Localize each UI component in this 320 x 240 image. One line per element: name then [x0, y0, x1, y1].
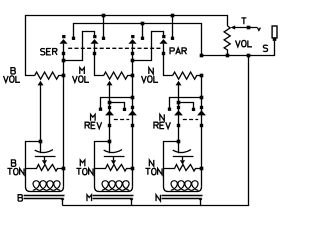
- wire M cap to tone wiper: [113, 157, 115, 161]
- label REV of M REV: [85, 122, 101, 128]
- node B tone top junction: [39, 140, 43, 144]
- wire dashed gang M REV: [114, 119, 129, 121]
- switch PAR pole4 bottom lug: [162, 52, 165, 55]
- resistor master VOL zigzag: [224, 26, 230, 56]
- switch M REV poleL wiper arrow: [105, 110, 114, 115]
- switch SER pole1 wiper arrow: [59, 39, 67, 44]
- wire dashed gang N REV: [183, 119, 198, 121]
- node junction on wiper wire: [247, 26, 251, 30]
- pot wiper B TON down arrow: [42, 160, 47, 164]
- node junction M REV wiper branch: [108, 101, 112, 105]
- resistor M VOL zigzag: [104, 72, 133, 79]
- capacitor M cap stem: [109, 142, 111, 154]
- ground arrow M pickup: [130, 199, 134, 202]
- label N pickup: [156, 195, 160, 201]
- wire ground bus bottom and right riser: [63, 56, 249, 206]
- label N of N VOL: [149, 68, 153, 74]
- switch SER pole1 side contact: [72, 37, 75, 40]
- wire PAR pole3 common down to M VOL right: [132, 44, 134, 76]
- switch N REV middle contact: [192, 108, 195, 111]
- label N of N TON: [149, 160, 153, 166]
- resistor B VOL zigzag: [35, 72, 64, 79]
- label B of B VOL: [11, 68, 15, 74]
- ground arrow N pickup: [199, 199, 203, 202]
- label TON of M TON: [76, 168, 93, 174]
- pickup B base upper line: [24, 195, 65, 197]
- node B VOL right terminal: [62, 74, 66, 78]
- label B pickup: [18, 195, 22, 201]
- pot wiper M VOL arrow: [107, 81, 113, 86]
- switch N REV poleL bottom lug: [177, 124, 180, 127]
- resistor N TON zigzag: [164, 165, 202, 172]
- node junction x132.5 y60.5: [131, 59, 135, 63]
- resistor N VOL zigzag: [173, 72, 202, 79]
- switch PAR pole3 wiper arrow: [128, 39, 136, 44]
- capacitor B cap flat plate: [35, 156, 56, 158]
- capacitor N cap stem: [178, 142, 180, 154]
- wire drop to SER S2 side contact: [103, 16, 105, 38]
- node junction x63.5 y60.5: [62, 59, 66, 63]
- wire hot rail: B VOL left lead, left edge, top rail, drop to master VOL: [26, 16, 228, 76]
- resistor B TON zigzag: [26, 165, 64, 172]
- wire link PAR pole3 common to pole4 top contact: [133, 32, 164, 61]
- node junction N REV y97.5 on right line: [200, 96, 204, 100]
- wire sleeve line y55.5 to jack: [202, 41, 275, 56]
- capacitor N cap curved plate: [173, 150, 191, 153]
- wire drop to PAR S4 side contact: [172, 16, 174, 38]
- switch N REV poleL wiper arrow: [174, 110, 183, 115]
- label VOL of M VOL: [73, 76, 90, 82]
- label N of N REV: [160, 114, 164, 120]
- node M VOL right terminal: [131, 74, 135, 78]
- label TON of B TON: [7, 168, 24, 174]
- switch SER pole2 top contact: [93, 35, 96, 38]
- node junction x227.5 y55.5: [226, 54, 230, 58]
- switch M REV cross wire left contact to poleR line: [101, 98, 133, 108]
- switch PAR pole4 side contact: [171, 37, 174, 40]
- switch M REV poleL top contact: [108, 106, 111, 109]
- wire SER pole2 common down to M VOL left: [95, 44, 104, 76]
- label PAR: [170, 48, 186, 54]
- switch SER pole2 wiper arrow: [90, 39, 98, 44]
- wire dashed gang SER-PAR: [68, 47, 160, 49]
- node junction N REV wiper branch: [177, 101, 181, 105]
- switch PAR pole3 top contact: [131, 35, 134, 38]
- wire PAR pole4 common down to N VOL left: [164, 44, 173, 76]
- node B tone right terminal: [62, 167, 66, 171]
- wire N tone loop left side and bottom: [164, 142, 202, 192]
- switch SER pole2 bottom lug: [93, 52, 96, 55]
- label B of B TON: [11, 160, 15, 166]
- switch N REV cross wire left contact to poleR line: [170, 98, 202, 108]
- switch N REV poleR bottom lug: [200, 124, 203, 127]
- wire rail y23 from SER side contact to N line top: [74, 24, 202, 56]
- switch PAR pole4 wiper arrow: [159, 39, 167, 44]
- switch N REV left side contact: [168, 108, 171, 111]
- switch SER pole1 top contact: [62, 35, 65, 38]
- wire drop to PAR S3 side contact: [142, 24, 144, 38]
- wire SER pole1 common down to B VOL right: [63, 44, 65, 76]
- switch N REV poleR top contact: [200, 106, 203, 109]
- label M pickup: [87, 195, 92, 201]
- capacitor N cap flat plate: [173, 156, 194, 158]
- pot wiper B VOL arrow: [38, 81, 44, 86]
- wire N right line down to box: [201, 76, 203, 187]
- pickup N base lower line: [162, 198, 202, 200]
- wire B ground stub: [62, 201, 64, 206]
- switch PAR pole3 side contact: [141, 37, 144, 40]
- node junction M REV y97.5 on right line: [131, 96, 135, 100]
- switch M REV poleR wiper arrow: [128, 110, 137, 115]
- pot wiper M TON down arrow: [111, 160, 116, 164]
- capacitor B cap curved plate: [35, 150, 53, 153]
- wire N ground stub: [200, 201, 202, 206]
- pickup M base lower line: [93, 198, 133, 200]
- capacitor M cap flat plate: [104, 156, 125, 158]
- wire M tone loop left side and bottom: [95, 142, 133, 192]
- label T tip: [241, 18, 246, 24]
- resistor M TON zigzag: [95, 165, 133, 172]
- label REV of N REV: [154, 122, 170, 128]
- inductor N coil loops: [171, 181, 199, 191]
- label SER: [41, 49, 57, 55]
- switch N REV poleR wiper arrow: [197, 110, 206, 115]
- node junction x248.5 y55.5: [247, 54, 251, 58]
- inductor B coil loops: [33, 181, 61, 191]
- node N tone right terminal: [200, 167, 204, 171]
- switch SER pole1 bottom lug: [62, 52, 65, 55]
- switch SER pole2 side contact: [102, 37, 105, 40]
- node M tone right terminal: [131, 167, 135, 171]
- label S sleeve: [263, 45, 267, 51]
- switch M REV middle contact: [123, 108, 126, 111]
- wire B cap to tone wiper: [44, 157, 46, 161]
- wire M ground stub: [131, 201, 133, 206]
- switch PAR pole4 top contact: [162, 35, 165, 38]
- wire N cap to tone wiper: [182, 157, 184, 161]
- wire M VOL wiper down: [109, 85, 111, 142]
- wire M right line down to box: [132, 76, 134, 187]
- node N tone top junction: [177, 140, 181, 144]
- node N VOL right terminal: [200, 74, 204, 78]
- pickup M base upper line: [93, 195, 134, 197]
- ground arrow B pickup: [61, 199, 65, 202]
- pot wiper N TON down arrow: [180, 160, 185, 164]
- node junction top rail x103.5: [102, 14, 106, 18]
- switch M REV poleR bottom lug: [131, 124, 134, 127]
- switch PAR pole3 bottom lug: [131, 52, 134, 55]
- label VOL of N VOL: [142, 76, 159, 82]
- wire link SER pole1 common to pole2 top contact: [64, 32, 95, 61]
- switch N REV poleL top contact: [177, 106, 180, 109]
- wire M REV branch to middle contact: [110, 103, 125, 108]
- capacitor B cap stem: [40, 142, 42, 154]
- node M tone top junction: [108, 140, 112, 144]
- switch M REV poleL bottom lug: [108, 124, 111, 127]
- wire N REV branch to middle contact: [179, 103, 194, 108]
- pickup N base upper line: [162, 195, 203, 197]
- switch M REV left side contact: [99, 108, 102, 111]
- pot wiper N VOL arrow: [176, 81, 182, 86]
- arrow v to tip: [257, 28, 260, 31]
- capacitor M cap curved plate: [104, 150, 122, 153]
- label VOL master: [236, 40, 253, 46]
- label VOL of B VOL: [4, 76, 21, 82]
- pot wiper master VOL left arrow: [231, 25, 236, 29]
- jack plug body: [272, 26, 277, 38]
- inductor M coil loops: [102, 181, 130, 191]
- wire N VOL wiper down: [178, 85, 180, 142]
- wire B tone loop left side and bottom: [26, 142, 64, 192]
- jack plug tip nub: [273, 38, 277, 41]
- node junction top rail x172.5: [171, 14, 175, 18]
- wire B VOL wiper down: [40, 85, 42, 142]
- node junction rail y23 x142.5: [141, 22, 145, 26]
- label TON of N TON: [145, 168, 162, 174]
- node junction x201.5 y55.5: [200, 54, 204, 58]
- pickup B base lower line: [24, 198, 64, 200]
- switch M REV poleR top contact: [131, 106, 134, 109]
- label M of M VOL: [80, 68, 85, 74]
- wire B right line down to box: [63, 76, 65, 187]
- label M of M REV: [91, 114, 96, 120]
- wire master wiper toward jack tip: [235, 27, 257, 29]
- label M of M TON: [80, 160, 85, 166]
